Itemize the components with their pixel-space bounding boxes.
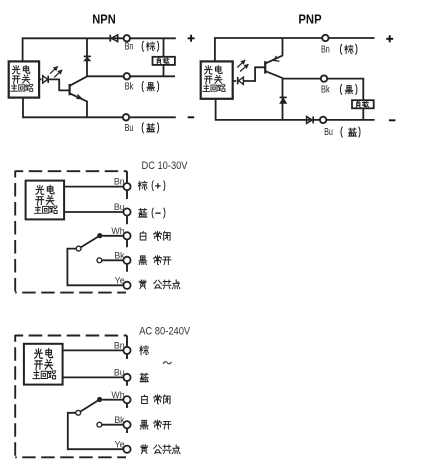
- svg-text:Bk: Bk: [114, 415, 125, 425]
- svg-text:Bn: Bn: [114, 341, 125, 351]
- svg-text:Bu: Bu: [114, 368, 125, 378]
- svg-text:Wh: Wh: [111, 226, 124, 236]
- svg-text:Bk: Bk: [321, 84, 330, 96]
- svg-text:Bk: Bk: [114, 250, 125, 260]
- svg-text:Wh: Wh: [111, 390, 124, 400]
- svg-text:Bu: Bu: [114, 202, 125, 212]
- svg-text:Bk: Bk: [125, 81, 134, 93]
- svg-text:Bu: Bu: [125, 122, 134, 134]
- svg-text:AC 80-240V: AC 80-240V: [139, 326, 191, 338]
- svg-text:Bn: Bn: [321, 43, 330, 55]
- svg-text:PNP: PNP: [298, 12, 321, 27]
- svg-text:Ye: Ye: [115, 439, 125, 449]
- svg-text:Bn: Bn: [125, 40, 134, 52]
- svg-text:Ye: Ye: [115, 275, 125, 285]
- svg-text:NPN: NPN: [92, 12, 115, 27]
- svg-text:Bu: Bu: [324, 126, 333, 138]
- svg-text:Bn: Bn: [114, 177, 125, 187]
- svg-text:DC 10-30V: DC 10-30V: [142, 160, 189, 172]
